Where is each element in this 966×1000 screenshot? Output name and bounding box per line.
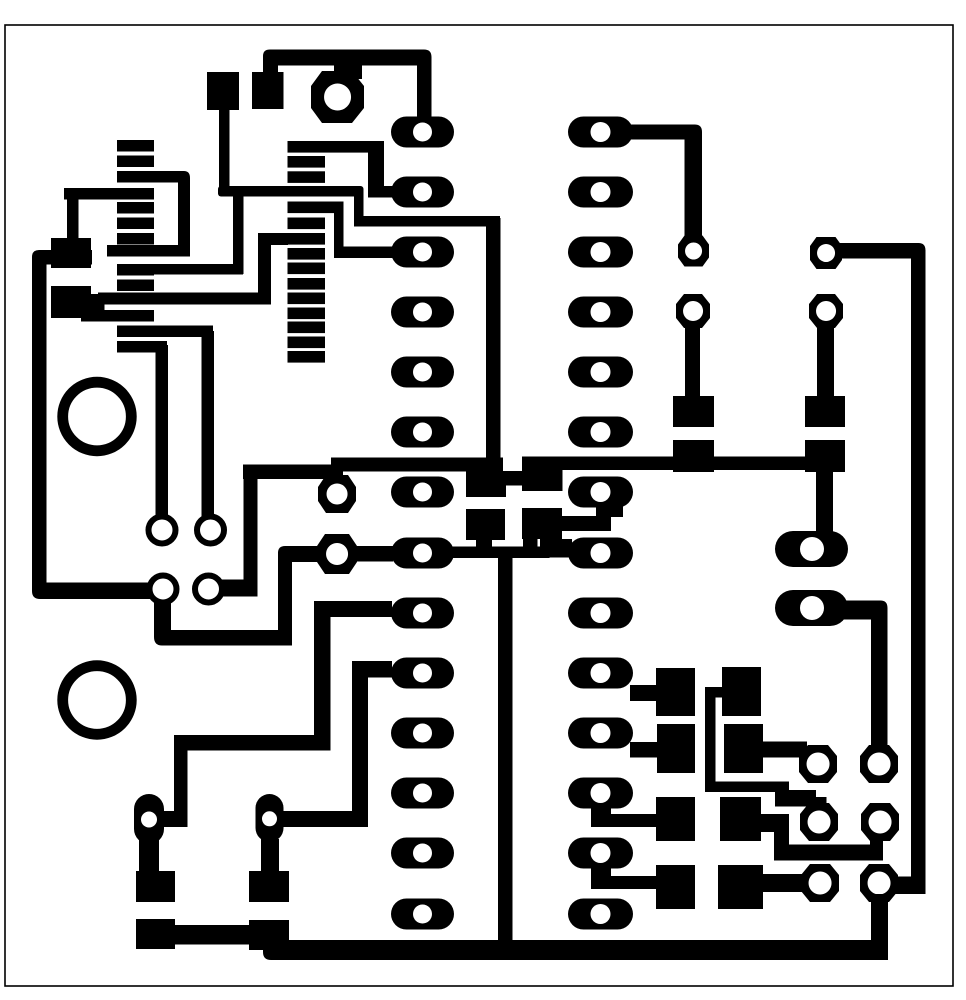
wire riser U1 pin 13 down to ring pad V2	[202, 331, 215, 516]
wire R4 down to pad SC	[817, 324, 834, 398]
ladder U2 pin 8	[288, 248, 326, 260]
capsule pad TP1 (vertical, bottom left)	[134, 794, 164, 844]
wire Q5 thin route to octagon W3: stub left	[705, 687, 827, 811]
wire elbow into capsule TP1	[155, 811, 188, 827]
pad L7	[391, 477, 454, 508]
wire vertical ring V4 route up to net H1	[244, 465, 258, 591]
hole pad L12	[413, 784, 432, 803]
octagon via W5	[801, 864, 839, 902]
pad BR1 (SMD square)	[249, 871, 289, 902]
ring pad R1 (octagon via)	[678, 236, 709, 267]
ring pad R2 (octagon via, top right)	[810, 237, 842, 269]
wire pad M1 to ring R1 (horizontal)	[618, 125, 702, 242]
hole pad L4	[413, 303, 432, 322]
pad L2	[391, 177, 454, 208]
via octagon U3 (large octagonal pad)	[311, 71, 364, 123]
hole pad M10	[591, 663, 611, 683]
hole pad M2	[591, 182, 611, 202]
wire pad P16 right then down to octagon W2	[834, 601, 888, 749]
wire Q7 route to octagon W4	[761, 814, 883, 861]
pad L12	[391, 778, 454, 809]
hole pad L14	[413, 905, 432, 924]
ring pad V1	[149, 517, 176, 544]
hole pad M12	[591, 783, 611, 803]
hole pad M13	[591, 843, 611, 863]
octagon via W1	[799, 745, 837, 783]
wire foot into pad L2	[368, 186, 402, 198]
wire vertical down to capsule TP1 elbow	[174, 735, 188, 827]
ladder U2 pin 5 (extends right into drop)	[288, 202, 344, 214]
hole pad L11	[413, 724, 432, 743]
octagon pad U4 (mid, connects to pad L8)	[317, 534, 357, 574]
wire H2 from pad L8 to junction	[450, 547, 550, 559]
pad BR2 (SMD square)	[249, 920, 289, 950]
wire pad L9 left horizontal	[314, 601, 392, 617]
capsule pad TP2 (vertical, bottom left)	[256, 794, 284, 842]
hole pad L8	[413, 544, 432, 563]
pad S2 (SMD square)	[522, 459, 563, 491]
net H1 main horizontal right part (right of channel)	[522, 457, 806, 471]
wire pad L9 to bottom-left capsule T1pad: horizontal at pad	[155, 601, 392, 827]
hole pad L1	[413, 123, 432, 142]
pad M11	[568, 718, 633, 749]
ladder U1 pin 13 (extends right, riser to ring pad V2)	[117, 326, 213, 338]
pad BL1 (SMD square)	[136, 871, 175, 902]
wire pad M13 S-bend down	[591, 866, 611, 889]
hole pad M9	[591, 603, 611, 623]
wire pad M10 to Q1	[630, 685, 660, 701]
octagon via W4	[861, 803, 899, 841]
wire T2 riser up	[258, 233, 271, 305]
wire U1 pin 4 to square A riser	[64, 188, 154, 200]
wire elbow into capsule TP2	[277, 811, 368, 827]
ladder U1 pin 7	[117, 233, 154, 245]
ladder U2 pin 14	[288, 337, 326, 349]
octagon pad U5 (under net H1)	[318, 475, 356, 513]
pad Q5	[722, 667, 761, 716]
ring pad R3 (octagon)	[676, 294, 710, 328]
hole pad M4	[591, 302, 611, 322]
stub TP1 to square BL1	[139, 840, 159, 873]
ring pad V3	[150, 576, 177, 603]
hole pad L13	[413, 844, 432, 863]
pad M7	[568, 477, 633, 508]
pad P16 (horizontal capsule right)	[775, 590, 848, 626]
hole pad M11	[591, 723, 611, 743]
hole capsule TP1	[141, 812, 157, 828]
octagon via W6	[860, 864, 898, 902]
pad BL2 (SMD square)	[136, 919, 175, 949]
pad M12	[568, 778, 633, 809]
connector octagon U3 to VCC trace	[334, 62, 354, 82]
wire pad L10 left horizontal	[352, 661, 392, 678]
wire line C from pad B to T2 riser	[98, 293, 271, 305]
ladder U2 pin 13	[288, 322, 326, 334]
pad Q4	[656, 865, 695, 909]
wire T1 drop to ladder U1 pin 8	[233, 194, 244, 274]
hole pad M6	[591, 422, 611, 442]
pad SB (SMD square R5.2)	[673, 440, 714, 472]
hole pad P16	[800, 596, 824, 620]
hole pad M14	[591, 904, 611, 924]
wire pad M13 S-bend to Q4	[596, 876, 658, 889]
wire pad M11 to Q2	[630, 742, 661, 758]
wire ring R2 to right edge vertical	[836, 243, 926, 259]
wire pad M7 S-bend to S4	[560, 516, 611, 531]
pad Q2	[657, 724, 695, 773]
pad S1 (SMD square under H1)	[466, 471, 506, 497]
ladder U1 pin 1	[117, 140, 154, 152]
wire Q8 to octagon W5	[761, 874, 805, 892]
hole pad P15	[800, 537, 824, 561]
wire T1 lower horizontal segment to middle vertical	[354, 216, 500, 227]
ladder U2 pin 2	[288, 156, 326, 168]
wire pad M12 S-bend down	[591, 806, 611, 827]
ladder U2 pin 1 (extends right to riser)	[288, 141, 385, 153]
pad M8	[568, 538, 633, 569]
net H1 main horizontal right part (left of channel)	[331, 458, 503, 472]
ring pad V2	[197, 517, 224, 544]
ladder U1 pin 14 (extends right, riser to ring pad V1)	[117, 341, 167, 353]
wire R3 down to pad SA	[685, 324, 700, 398]
hole pad L6	[413, 423, 432, 442]
stub right of pad B	[89, 294, 105, 316]
hole capsule TP2	[262, 811, 277, 826]
pad C1.1 (SMD square, top left pair)	[207, 72, 239, 110]
pad L1	[391, 117, 454, 148]
pad L8	[391, 538, 454, 569]
ladder U1 pin 3 (wraps right)	[117, 171, 154, 183]
hole pad L9	[413, 604, 432, 623]
pad S3 (SMD square)	[466, 509, 505, 540]
pad P15 (horizontal capsule right)	[775, 531, 848, 567]
hole pad M1	[591, 122, 611, 142]
ladder U2 pin 11	[288, 293, 326, 305]
pad M4	[568, 297, 633, 328]
hole pad M7	[591, 482, 611, 502]
wire riser U1 pin 14 down to ring pad V1	[156, 345, 169, 516]
hole pad M5	[591, 362, 611, 382]
wire elbow right vertical into octagon W6	[893, 877, 926, 895]
hole pad L3	[413, 243, 432, 262]
wire riser pad A to U1 pin 4	[67, 194, 79, 242]
ladder U2 pin 7	[288, 233, 326, 245]
bridge S1 to S2	[500, 471, 523, 486]
pad Q6	[724, 724, 763, 773]
pad L14	[391, 899, 454, 930]
mounting hole H1 (upper annulus)	[63, 382, 132, 451]
ladder U1 pin 10	[117, 280, 154, 292]
wire pad SD down to pad P15	[816, 470, 833, 534]
pad L13	[391, 838, 454, 869]
pad C1.2 (SMD square, top left pair)	[252, 72, 284, 109]
wire drop from U2 pin 5	[334, 202, 344, 259]
pad M6	[568, 417, 633, 448]
wire octagon U4 to pad L8	[353, 546, 393, 562]
ring pad V4	[195, 576, 222, 603]
pad Q8	[718, 865, 763, 909]
octagon via W3	[800, 803, 838, 841]
wire middle vertical lower (H2 tee down to bottom trace)	[498, 555, 513, 944]
wire from pad C1.1 down to net T1	[219, 106, 230, 196]
ladder U1 pin 2	[117, 156, 154, 168]
ladder U2 pin 15	[288, 351, 326, 363]
pad M14	[568, 899, 633, 930]
bend S4 to H2	[523, 536, 538, 550]
wire right edge vertical (to octagon W6)	[911, 250, 926, 894]
net H1 main horizontal trace	[243, 465, 343, 480]
wire Q5 route vertical	[705, 687, 716, 792]
ladder U2 pin 9	[288, 263, 326, 275]
wire middle vertical upper (net T1 to H1)	[486, 218, 501, 470]
pad M3	[568, 237, 633, 268]
ladder U2 pin 3	[288, 171, 326, 183]
pad L3	[391, 237, 454, 268]
pad M10	[568, 658, 633, 689]
ladder U1 pin 5	[117, 202, 154, 214]
wire T1 jog down	[354, 189, 364, 226]
wire pad M7 S-bend down	[596, 505, 611, 531]
pad L6	[391, 417, 454, 448]
hole pad L10	[413, 664, 432, 683]
pad M2	[568, 177, 633, 208]
ladder U2 pin 12	[288, 308, 326, 320]
ladder U2 pin 10	[288, 278, 326, 290]
wire pad M12 S-bend to Q3	[596, 814, 658, 827]
wire T1 horizontal segment crossing ladder U2	[218, 186, 364, 197]
wire from riser to octagon U4	[278, 546, 319, 562]
pad SC (SMD square R6.1)	[805, 396, 845, 427]
pad S4 (SMD square)	[522, 508, 562, 539]
ladder U1 pin 9	[117, 264, 154, 276]
pad Q1	[656, 668, 695, 716]
thick wire BL2 to BR2	[175, 925, 251, 945]
ladder U2 pin 6	[288, 218, 326, 230]
ladder U1 pin 6	[117, 218, 154, 230]
wire from drop to pad L3	[334, 247, 394, 259]
pad M9	[568, 598, 633, 629]
pad L11	[391, 718, 454, 749]
ring pad R4 (octagon)	[809, 294, 843, 328]
hole pad M3	[591, 242, 611, 262]
wire ring V4 to H1 corner	[220, 580, 258, 597]
hole pad M8	[591, 543, 611, 563]
stub S3 down to H2	[476, 535, 492, 551]
wire riser U2 pin 1 down to pad L2	[368, 141, 384, 198]
wire pad L10 vertical down	[352, 661, 368, 827]
ladder U1 pin 12 (extends left to square B)	[81, 310, 154, 322]
mounting hole H2 (lower annulus)	[63, 666, 132, 735]
pad B (SMD square on component Y1)	[51, 286, 91, 318]
octagon via W2	[860, 745, 898, 783]
connector junction to pad M8	[540, 539, 572, 558]
pad Q7	[720, 797, 761, 841]
wire pad L9 vertical down	[314, 601, 331, 751]
stub TP2 to square BR1	[261, 839, 279, 873]
hole pad L5	[413, 363, 432, 382]
wire bottom horizontal toward capsule TP1	[174, 735, 331, 751]
wire line B from T1 drop to ladder U1 pin 8	[152, 264, 243, 275]
pad M13	[568, 838, 633, 869]
wire T2 arm into ladder U2 pin 7	[258, 233, 288, 245]
component Y1 outline loop (left big loop)	[32, 250, 150, 599]
pad SA (SMD square R5.1)	[673, 396, 714, 427]
pad Q3	[656, 797, 695, 841]
connector step octagon U3	[334, 62, 362, 79]
pad M1	[568, 117, 633, 148]
hole pad L7	[413, 483, 432, 502]
pad SD (SMD square R6.2)	[805, 440, 845, 472]
pad L10	[391, 658, 454, 689]
wire riser ring V3 route up to octagon U4	[278, 552, 292, 642]
pad L5	[391, 357, 454, 388]
wire octagon W6 down to bottom bus	[871, 894, 888, 946]
thick trace VCC from pad C1.2 to pad P1.1	[263, 50, 432, 123]
stub pad M7 bottom	[596, 505, 623, 517]
pad M5	[568, 357, 633, 388]
wire Q5 route stub into octagon W3	[813, 797, 827, 811]
wire from ring V3 down elbow	[154, 602, 292, 646]
wire Q5 route horizontal	[705, 782, 789, 793]
hole pad L2	[413, 183, 432, 202]
wire Q5 route step	[775, 790, 816, 807]
pad L9	[391, 598, 454, 629]
wire wrap from U1 pin 3 right side	[107, 171, 190, 257]
pad L4	[391, 297, 454, 328]
pad A (SMD square on component Y1)	[51, 238, 91, 268]
bottom bus trace GND	[263, 940, 888, 960]
wire Q6 to octagon W1	[763, 742, 807, 758]
